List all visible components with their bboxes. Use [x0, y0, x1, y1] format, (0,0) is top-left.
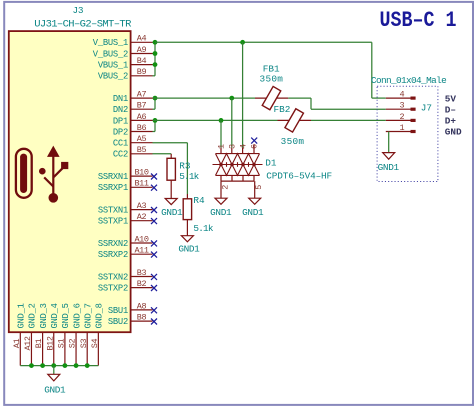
svg-text:3: 3	[399, 101, 404, 111]
junction DP to D1	[219, 118, 224, 123]
pin A3 SSTXN1 of J3	[98, 201, 157, 216]
svg-text:D1: D1	[265, 158, 277, 169]
svg-text:B9: B9	[137, 67, 147, 77]
svg-text:SSTXN1: SSTXN1	[98, 206, 128, 216]
svg-text:GND_1: GND_1	[17, 303, 27, 328]
svg-text:GND_4: GND_4	[50, 303, 60, 328]
svg-text:5: 5	[254, 185, 264, 190]
junction at GND bus 4	[63, 363, 68, 368]
svg-text:350m: 350m	[260, 74, 284, 85]
svg-text:1: 1	[399, 123, 404, 133]
svg-text:GND1: GND1	[210, 207, 232, 218]
connector J3 body	[9, 31, 131, 332]
wire: DN net to FB1	[153, 97, 256, 99]
svg-text:3: 3	[227, 144, 237, 149]
junction DN	[153, 96, 158, 101]
wire: FB1 to J7 pin 3 (step)	[288, 97, 311, 99]
resistor R3	[167, 158, 175, 180]
svg-text:1: 1	[216, 144, 226, 149]
svg-text:D–: D–	[445, 105, 456, 116]
svg-text:A10: A10	[134, 234, 148, 244]
svg-text:S1: S1	[57, 339, 67, 349]
svg-text:B6: B6	[137, 123, 147, 133]
wire: drop to GND1	[53, 366, 55, 375]
pin B7 DN2 of J3	[113, 101, 153, 116]
pin S1 GND_5 of J3	[57, 303, 72, 365]
ferrite bead FB2	[278, 119, 312, 121]
pin A10 SSRXN2 of J3	[98, 234, 157, 249]
svg-text:A4: A4	[137, 34, 147, 44]
svg-text:4: 4	[399, 90, 404, 100]
pin A5 CC1 of J3	[113, 134, 153, 149]
junction VBUS A9	[153, 51, 158, 56]
svg-text:SSRXP2: SSRXP2	[98, 250, 128, 260]
svg-text:B3: B3	[137, 268, 147, 278]
junction at GND bus 1	[29, 363, 34, 368]
wire: DP down to D1 pin 1	[220, 120, 222, 147]
svg-text:S4: S4	[90, 339, 100, 349]
svg-text:J3: J3	[72, 5, 83, 16]
pin A1 GND_1 of J3	[12, 303, 27, 365]
svg-text:GND_5: GND_5	[61, 303, 71, 328]
wire: GND bus under J3	[20, 365, 98, 367]
svg-text:GND_3: GND_3	[39, 303, 49, 328]
svg-text:A11: A11	[134, 246, 148, 256]
pin 3 of J7	[386, 101, 416, 111]
pin S2 GND_6 of J3	[68, 303, 83, 365]
svg-text:A8: A8	[137, 301, 147, 311]
svg-text:CC2: CC2	[113, 150, 128, 160]
svg-text:2: 2	[399, 112, 404, 122]
power symbol GND1 (D1 pin2)	[215, 198, 227, 204]
junction VBUS to D1	[240, 40, 245, 45]
svg-text:DN2: DN2	[113, 105, 128, 115]
R4 lead to ground	[186, 220, 188, 236]
svg-text:SSTXN2: SSTXN2	[98, 272, 128, 282]
pin B5 CC2 of J3	[113, 145, 153, 160]
svg-text:UJ31–CH–G2–SMT–TR: UJ31–CH–G2–SMT–TR	[34, 18, 132, 30]
svg-text:B12: B12	[45, 336, 55, 350]
svg-text:5.1k: 5.1k	[193, 223, 213, 234]
svg-text:B1: B1	[34, 339, 44, 349]
power symbol GND1 (R4)	[181, 236, 193, 242]
pin A12 GND_2 of J3	[23, 303, 38, 365]
pin A6 DP1 of J3	[113, 112, 153, 127]
pin B11 SSRXP1 of J3	[98, 179, 157, 194]
svg-text:R4: R4	[193, 195, 205, 206]
svg-text:GND_6: GND_6	[72, 303, 82, 328]
wire: CC1 to R4	[153, 142, 188, 144]
svg-text:SSRXP1: SSRXP1	[98, 183, 128, 193]
svg-text:5V: 5V	[445, 93, 457, 104]
wire: DP2 riser to DP1	[153, 131, 156, 133]
svg-text:GND_8: GND_8	[95, 303, 105, 328]
pin B10 SSRXN1 of J3	[98, 168, 157, 183]
svg-text:DN1: DN1	[113, 94, 128, 104]
power symbol GND1 (R3)	[165, 199, 177, 205]
svg-text:GND1: GND1	[242, 207, 264, 218]
ferrite bead FB1	[255, 97, 288, 99]
svg-text:SSRXN1: SSRXN1	[98, 172, 128, 182]
svg-text:D+: D+	[445, 116, 457, 127]
svg-text:350m: 350m	[281, 136, 305, 147]
junction at GND bus 6	[85, 363, 90, 368]
pin S3 GND_7 of J3	[79, 303, 94, 365]
svg-text:CC1: CC1	[113, 139, 128, 149]
junction at GND bus 3	[51, 363, 56, 368]
svg-text:A5: A5	[137, 134, 147, 144]
svg-text:2: 2	[220, 185, 230, 190]
wire: J7 pin1 to GND1	[388, 132, 390, 153]
svg-text:GND1: GND1	[161, 207, 183, 218]
wire: DN down to D1 pin 3	[231, 98, 233, 148]
svg-text:Conn_01x04_Male: Conn_01x04_Male	[371, 75, 447, 86]
svg-text:B2: B2	[137, 279, 147, 289]
pin S4 GND_8 of J3	[90, 303, 105, 365]
pin A7 DN1 of J3	[113, 90, 153, 105]
pin A2 SSTXP1 of J3	[98, 212, 157, 227]
svg-text:USB–C 1: USB–C 1	[380, 8, 457, 33]
pin A8 SBU1 of J3	[108, 301, 157, 316]
svg-text:FB2: FB2	[274, 104, 291, 115]
wire: FB2 to J7 pin 2	[311, 119, 386, 121]
svg-text:4: 4	[238, 144, 248, 149]
svg-text:5.1k: 5.1k	[179, 171, 199, 182]
svg-text:GND1: GND1	[44, 385, 66, 396]
svg-text:V_BUS_2: V_BUS_2	[93, 49, 128, 59]
svg-text:A1: A1	[12, 339, 22, 349]
dashed group box around J7	[377, 86, 438, 181]
svg-text:SSRXN2: SSRXN2	[98, 239, 128, 249]
USB trident icon	[39, 146, 68, 203]
svg-text:GND1: GND1	[378, 162, 400, 173]
svg-text:A2: A2	[137, 212, 147, 222]
svg-text:CPDT6–5V4–HF: CPDT6–5V4–HF	[266, 170, 332, 181]
pin B3 SSTXN2 of J3	[98, 268, 157, 283]
svg-text:A6: A6	[137, 112, 147, 122]
svg-text:A12: A12	[23, 336, 33, 350]
svg-text:DP2: DP2	[113, 127, 128, 137]
svg-text:SSTXP2: SSTXP2	[98, 284, 128, 294]
pin B1 GND_3 of J3	[34, 303, 49, 365]
power symbol GND1 (bottom)	[48, 374, 60, 381]
pin B12 GND_4 of J3	[45, 303, 60, 365]
junction at GND bus 5	[74, 363, 79, 368]
svg-text:GND1: GND1	[178, 244, 200, 255]
svg-text:V_BUS_1: V_BUS_1	[93, 38, 128, 48]
svg-text:B7: B7	[137, 101, 147, 111]
wire: VBUS down to D1 pin 4	[242, 42, 244, 147]
svg-text:B4: B4	[137, 56, 147, 66]
svg-text:VBUS_1: VBUS_1	[98, 61, 128, 71]
resistor R4	[183, 199, 191, 220]
svg-text:A9: A9	[137, 45, 147, 55]
pin B2 SSTXP2 of J3	[98, 279, 157, 294]
D1 bottom comb and pins 2,5	[221, 175, 255, 198]
svg-text:B8: B8	[137, 313, 147, 323]
wire: VBUS top run to J7	[155, 41, 372, 43]
svg-text:J7: J7	[421, 103, 432, 114]
D1 pin 6 stub and no-connect X	[253, 144, 255, 153]
pin A9 V_BUS_2 of J3	[93, 45, 153, 60]
svg-text:GND_2: GND_2	[28, 303, 38, 328]
wire: DP net to FB2	[153, 119, 278, 121]
svg-text:A7: A7	[137, 90, 147, 100]
pin 2 of J7	[386, 112, 416, 122]
svg-text:DP1: DP1	[113, 116, 128, 126]
pin A11 SSRXP2 of J3	[98, 246, 157, 261]
svg-text:VBUS_2: VBUS_2	[98, 72, 128, 82]
svg-text:S3: S3	[79, 339, 89, 349]
svg-text:GND: GND	[445, 127, 462, 138]
junction VBUS B4	[153, 62, 158, 67]
pin B4 VBUS_1 of J3	[98, 56, 153, 71]
pin 4 of J7	[386, 90, 416, 100]
svg-text:GND_7: GND_7	[83, 303, 93, 328]
wire: CC2 to R3	[153, 153, 172, 155]
TVS diode array D1	[213, 154, 263, 176]
svg-text:R3: R3	[179, 160, 191, 171]
wire: VBUS riser joining A4 A9 B4 B9	[153, 41, 156, 43]
power symbol GND1 (D1 pin5)	[249, 198, 261, 204]
junction DN to D1	[229, 96, 234, 101]
power symbol GND1 (J7)	[383, 153, 395, 160]
junction VBUS A4	[153, 40, 158, 45]
svg-text:SBU1: SBU1	[108, 306, 128, 316]
junction at GND bus 2	[40, 363, 45, 368]
svg-text:SSTXP1: SSTXP1	[98, 217, 128, 227]
svg-text:B10: B10	[134, 168, 148, 178]
R3 lead to ground	[170, 180, 172, 198]
pin B9 VBUS_2 of J3	[98, 67, 153, 82]
svg-text:S2: S2	[68, 339, 78, 349]
junction DP	[153, 118, 158, 123]
pin B6 DP2 of J3	[113, 123, 153, 138]
svg-text:B11: B11	[134, 179, 148, 189]
wire: DN2 riser to DN1	[153, 108, 156, 110]
pin 1 of J7	[386, 123, 416, 133]
pin A4 V_BUS_1 of J3	[93, 34, 153, 49]
USB-C receptacle icon (pill)	[16, 149, 32, 198]
pin B8 SBU2 of J3	[108, 313, 157, 328]
svg-text:B5: B5	[137, 145, 147, 155]
svg-text:SBU2: SBU2	[108, 317, 128, 327]
svg-text:A3: A3	[137, 201, 147, 211]
